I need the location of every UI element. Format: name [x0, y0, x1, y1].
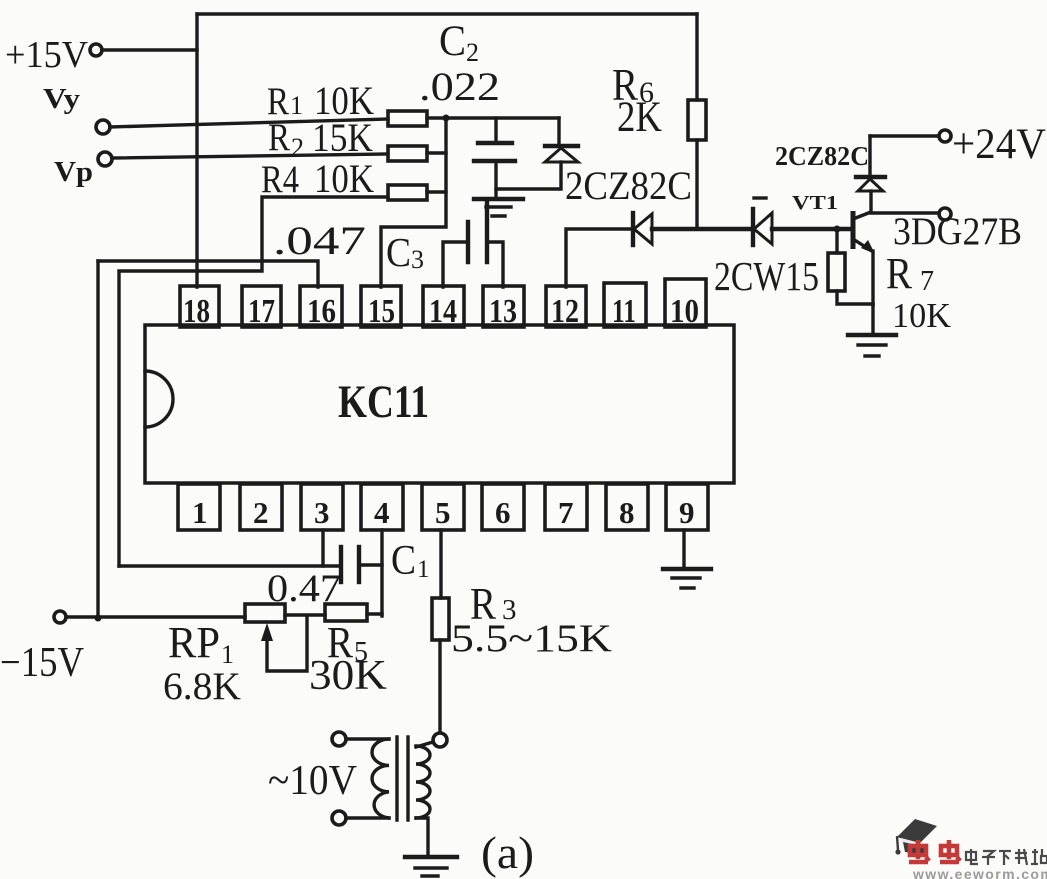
wire diode line mid [652, 227, 753, 231]
svg-text:R: R [886, 249, 913, 298]
svg-text:.022: .022 [419, 64, 500, 109]
pin 11 [604, 283, 646, 327]
wire RP1 to R5 [285, 613, 325, 616]
wire pin3 down [321, 530, 324, 566]
node secondary top terminal [433, 733, 447, 747]
resistor R2 [388, 146, 427, 161]
wire vertical junction bus to pin15 [381, 118, 446, 287]
char dian [966, 852, 976, 860]
pin 4 [361, 484, 403, 530]
resistor R5 [325, 604, 367, 621]
svg-text:KC11: KC11 [338, 376, 429, 428]
resistor R1 [388, 111, 427, 126]
svg-text:2: 2 [253, 495, 269, 530]
svg-text:C: C [386, 229, 411, 275]
pin 17 [242, 286, 281, 327]
pin 12 [546, 286, 586, 327]
core [395, 737, 398, 820]
cap [897, 819, 937, 844]
emitter arrow [861, 240, 875, 254]
wire outer vertical to -15V rail [96, 261, 99, 618]
svg-text:1: 1 [290, 91, 303, 120]
secondary winding [416, 742, 433, 747]
pin 18 [180, 286, 219, 327]
IC KC11 body [145, 325, 734, 483]
resistor R4 [388, 185, 427, 200]
wire outer loop to pin16 [98, 261, 318, 287]
wire C2 bottom to diode [496, 187, 559, 190]
pin 16 [300, 286, 342, 327]
primary winding [372, 739, 389, 818]
pin 5 [422, 484, 464, 530]
svg-text:−15V: −15V [0, 640, 84, 686]
svg-text:(a): (a) [481, 827, 534, 878]
chong char 1 [910, 846, 926, 855]
svg-text:1: 1 [417, 556, 430, 583]
wire +15V vertical to pin 18 [195, 14, 198, 287]
svg-text:13: 13 [489, 293, 517, 330]
svg-text:18: 18 [183, 293, 210, 330]
wire secondary bottom to ground [416, 818, 428, 857]
wire bottom bus to C1 [119, 564, 341, 567]
ground under emitter [871, 304, 874, 334]
pin 3 [301, 484, 343, 530]
svg-text:Vp: Vp [54, 156, 93, 188]
wire to +24V [870, 134, 938, 137]
wire +15V [102, 48, 197, 51]
svg-text:7: 7 [920, 266, 934, 297]
pin 14 [423, 286, 464, 327]
wire top rail [197, 12, 697, 15]
ground under C2 [474, 197, 523, 201]
char zhan [1032, 851, 1038, 853]
svg-text:5.5~15K: 5.5~15K [451, 617, 612, 660]
pin 6 [482, 484, 524, 530]
svg-text:VT1: VT1 [792, 192, 838, 214]
node +24V terminal [939, 130, 951, 142]
svg-text:~10V: ~10V [268, 758, 357, 804]
svg-text:+15V: +15V [5, 34, 89, 76]
svg-text:7: 7 [558, 495, 574, 530]
resistor R3 [439, 530, 442, 598]
svg-text:2: 2 [466, 38, 479, 67]
svg-text:3: 3 [411, 245, 424, 274]
wire -15V rail [66, 615, 245, 618]
node collector terminal [939, 208, 951, 220]
diode D1 2CZ82C horizontal [631, 213, 635, 245]
wire pin12 to diode line [566, 229, 633, 287]
svg-text:10K: 10K [314, 156, 374, 201]
pin 15 [361, 286, 401, 327]
svg-text:Vy: Vy [43, 83, 81, 115]
svg-text:8: 8 [619, 495, 635, 530]
svg-text:14: 14 [429, 293, 457, 330]
svg-text:6: 6 [495, 495, 511, 530]
ground under transformer [405, 855, 457, 859]
svg-text:9: 9 [679, 495, 695, 530]
diode D parallel C2 [557, 118, 560, 146]
svg-text:30K: 30K [309, 653, 387, 699]
capacitor C1 [339, 547, 343, 582]
node primary bottom terminal [332, 811, 346, 825]
wire R1 right to junction rail [427, 116, 559, 119]
potentiometer RP1 [245, 604, 285, 622]
svg-text:10: 10 [670, 293, 699, 330]
svg-text:15: 15 [368, 293, 395, 330]
wire pin4 down [380, 530, 383, 616]
wire R4 left loop [119, 197, 388, 566]
resistor R7 [834, 226, 841, 233]
svg-text:2CW15: 2CW15 [714, 253, 819, 299]
svg-text:10K: 10K [892, 296, 951, 335]
svg-text:3: 3 [314, 495, 330, 530]
watermark logo [895, 819, 937, 855]
svg-text:RP: RP [168, 618, 220, 667]
wire R2 right [427, 151, 446, 154]
diode D2 2CW15 [754, 196, 766, 199]
svg-text:16: 16 [307, 293, 336, 330]
svg-text:www.eeworm.com: www.eeworm.com [912, 866, 1047, 879]
svg-text:+24V: +24V [952, 121, 1046, 168]
svg-text:C: C [439, 18, 466, 65]
svg-text:12: 12 [551, 293, 579, 330]
svg-text:15K: 15K [312, 115, 373, 160]
pin 2 [240, 484, 282, 530]
pin 7 [545, 484, 587, 530]
node junction dot [443, 115, 450, 122]
ground under pin 9 [682, 530, 685, 568]
svg-text:11: 11 [612, 293, 636, 330]
svg-text:17: 17 [248, 293, 275, 330]
svg-text:C: C [391, 538, 416, 584]
pin 13 [483, 286, 524, 327]
svg-text:5: 5 [435, 495, 451, 530]
char zai [1015, 852, 1027, 854]
pin 10 [665, 279, 706, 327]
svg-text:3DG27B: 3DG27B [893, 210, 1022, 253]
svg-text:R: R [268, 116, 290, 159]
wire Vy to R1 [110, 119, 388, 127]
svg-text:.047: .047 [273, 218, 366, 263]
pin 1 [178, 484, 220, 530]
chong char 2 [941, 846, 957, 855]
svg-text:6.8K: 6.8K [163, 665, 241, 708]
svg-text:R4: R4 [261, 158, 299, 201]
svg-text:2CZ82C: 2CZ82C [775, 141, 869, 171]
svg-text:1: 1 [192, 495, 208, 530]
wire to transistor base [772, 227, 851, 231]
svg-text:2K: 2K [617, 94, 662, 141]
svg-text:4: 4 [374, 495, 390, 530]
pin 9 [666, 484, 708, 530]
wire Vp to R2 [112, 154, 388, 158]
wire primary stubs [346, 737, 389, 740]
char xia [999, 850, 1011, 852]
node -15V terminal [54, 611, 66, 623]
node primary top terminal [332, 732, 346, 746]
wire R4 right [427, 190, 446, 193]
pin 8 [606, 484, 648, 530]
node +15V terminal [90, 44, 102, 56]
svg-text:2CZ82C: 2CZ82C [565, 163, 692, 208]
wire collector node [869, 191, 872, 212]
char zi [983, 851, 994, 865]
